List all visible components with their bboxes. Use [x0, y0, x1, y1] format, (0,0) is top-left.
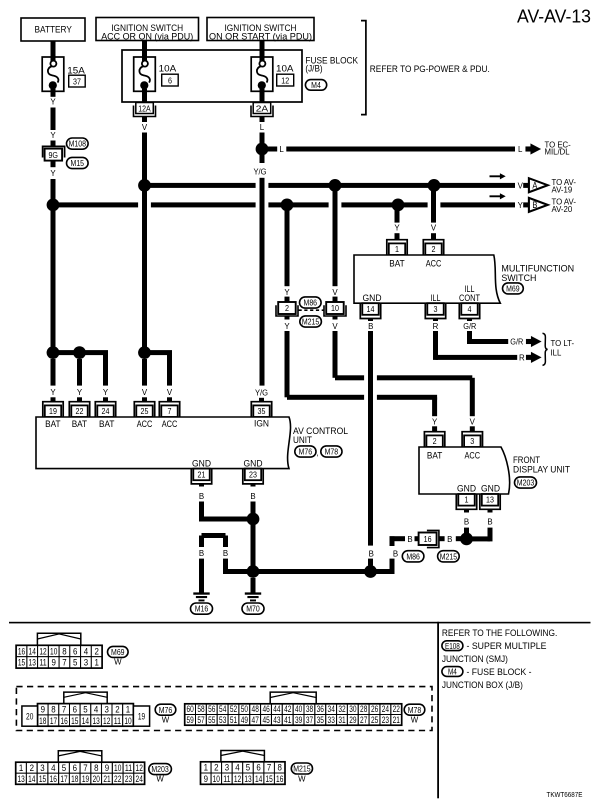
svg-text:49: 49 — [241, 715, 248, 725]
svg-text:R: R — [519, 353, 525, 362]
battery box — [21, 18, 85, 41]
svg-text:22: 22 — [114, 774, 121, 784]
ground bus wire — [253, 569, 395, 574]
svg-text:2: 2 — [285, 303, 289, 313]
svg-text:58: 58 — [197, 704, 204, 714]
ignition switch ACC box — [96, 18, 199, 41]
inline connector 10 — [324, 305, 346, 316]
oval M4 note — [442, 667, 463, 677]
stub below connector 10 — [333, 316, 338, 320]
svg-text:50: 50 — [241, 704, 248, 714]
oval M16 — [191, 603, 213, 614]
oval M215 — [300, 316, 322, 327]
svg-text:M4: M4 — [448, 668, 457, 677]
svg-text:CONT: CONT — [459, 292, 480, 303]
svg-text:DISPLAY UNIT: DISPLAY UNIT — [513, 464, 570, 475]
svg-text:16: 16 — [424, 534, 432, 544]
svg-text:2: 2 — [214, 763, 218, 773]
connector 21 — [191, 469, 211, 484]
svg-text:21: 21 — [198, 469, 206, 479]
svg-text:4: 4 — [84, 646, 88, 656]
svg-text:B: B — [199, 549, 204, 558]
connector 23 — [243, 469, 263, 484]
svg-text:48: 48 — [252, 704, 259, 714]
wire V down to splice — [142, 133, 147, 353]
connector face M203 grid — [16, 762, 27, 773]
svg-text:47: 47 — [252, 715, 259, 725]
junction dot Y bus left — [47, 199, 60, 212]
svg-text:15A: 15A — [67, 64, 85, 75]
svg-text:3: 3 — [470, 436, 474, 446]
svg-text:16: 16 — [276, 774, 283, 784]
svg-text:7: 7 — [267, 763, 271, 773]
stub to inline connector 2 — [285, 297, 290, 302]
svg-text:53: 53 — [219, 715, 226, 725]
svg-text:ACC: ACC — [465, 450, 481, 461]
svg-text:M86: M86 — [304, 298, 318, 308]
svg-text:19: 19 — [49, 406, 57, 416]
stub 7 — [167, 397, 172, 402]
svg-text:M86: M86 — [406, 551, 420, 561]
junction dot V bus x335 — [329, 179, 342, 192]
svg-text:33: 33 — [328, 715, 335, 725]
svg-text:16: 16 — [60, 716, 67, 726]
svg-text:BAT: BAT — [389, 257, 405, 268]
wire Y bus segment 1 — [53, 202, 138, 207]
svg-text:BAT: BAT — [427, 450, 443, 461]
svg-text:5: 5 — [73, 658, 77, 668]
junction dot ground bus — [364, 565, 377, 578]
stub to connector 3 front display — [470, 426, 475, 431]
svg-text:32: 32 — [338, 704, 345, 714]
svg-text:REFER TO PG-POWER & PDU.: REFER TO PG-POWER & PDU. — [370, 63, 490, 74]
right leg to ground bus — [223, 536, 228, 548]
wire Y down to BAT splice — [51, 179, 56, 353]
svg-text:M78: M78 — [325, 447, 339, 457]
svg-text:21: 21 — [103, 774, 110, 784]
stub to connector 1 — [395, 233, 400, 240]
svg-text:40: 40 — [295, 704, 302, 714]
svg-text:12: 12 — [136, 763, 143, 773]
svg-text:G/R: G/R — [510, 338, 523, 347]
oval M203 grid label — [149, 764, 172, 775]
oval M4 — [305, 80, 326, 91]
connector 1 BAT multifunction — [387, 240, 407, 255]
svg-text:14: 14 — [29, 646, 36, 656]
svg-text:W: W — [298, 775, 306, 784]
svg-text:2: 2 — [433, 436, 437, 446]
front display unit box — [419, 447, 510, 494]
svg-text:52: 52 — [230, 704, 237, 714]
svg-text:E108: E108 — [445, 642, 460, 651]
svg-text:B: B — [447, 535, 452, 544]
stub 24 — [103, 397, 108, 402]
svg-text:17: 17 — [50, 716, 57, 726]
svg-text:2A: 2A — [256, 104, 269, 113]
multifunction switch box — [354, 255, 500, 303]
svg-text:GND: GND — [481, 483, 500, 494]
svg-text:10A: 10A — [159, 63, 177, 74]
svg-text:G/R: G/R — [463, 322, 476, 331]
wire fuse12 down — [260, 91, 265, 103]
splice dot 2 — [73, 346, 86, 359]
svg-text:JUNCTION BOX (J/B): JUNCTION BOX (J/B) — [442, 680, 523, 690]
svg-text:UNIT: UNIT — [293, 434, 312, 445]
svg-text:3: 3 — [84, 658, 88, 668]
svg-text:24: 24 — [136, 774, 143, 784]
svg-text:W: W — [411, 716, 419, 725]
svg-text:9: 9 — [52, 658, 56, 668]
brace TO LT-ILL — [543, 333, 548, 365]
svg-text:22: 22 — [76, 406, 84, 416]
svg-text:55: 55 — [208, 715, 215, 725]
stub right of 16 — [439, 536, 445, 541]
svg-text:V: V — [470, 417, 476, 426]
stub 25 — [142, 397, 147, 402]
stub to connector 2 front display — [432, 426, 437, 431]
svg-text:18: 18 — [71, 774, 78, 784]
svg-text:4: 4 — [51, 763, 55, 773]
svg-text:SWITCH: SWITCH — [501, 272, 536, 283]
svg-text:23: 23 — [249, 469, 257, 479]
svg-text:,: , — [316, 449, 318, 458]
dashed group box — [16, 687, 432, 731]
wire V right segment 2 — [377, 375, 472, 380]
wire V bus down to ACC 2 — [431, 188, 436, 223]
wire into 9G — [51, 141, 56, 148]
svg-text:B: B — [393, 549, 398, 558]
svg-text:AV-19: AV-19 — [552, 185, 573, 194]
svg-text:15: 15 — [39, 774, 46, 784]
wire B from 21 down-right — [199, 502, 204, 522]
svg-text:MIL/DL: MIL/DL — [545, 148, 571, 157]
svg-text:3: 3 — [105, 705, 109, 715]
wire right leg down — [223, 559, 228, 574]
oval M78 — [321, 446, 342, 457]
svg-text:Y: Y — [432, 417, 438, 426]
fuse block box — [122, 50, 302, 102]
bracket for fuse block note — [361, 21, 366, 115]
connector 4 ILL CONT multifunction — [459, 303, 479, 318]
svg-text:12: 12 — [234, 774, 241, 784]
svg-text:29: 29 — [349, 715, 356, 725]
svg-text:- SUPER MULTIPLE: - SUPER MULTIPLE — [467, 641, 547, 651]
svg-text:39: 39 — [295, 715, 302, 725]
connector face M78 hood — [270, 692, 316, 704]
oval E108 — [442, 641, 463, 651]
svg-text:ILL: ILL — [551, 349, 563, 358]
svg-text:20: 20 — [26, 712, 33, 722]
svg-text:M69: M69 — [111, 647, 125, 657]
stub below 23 — [251, 484, 256, 487]
svg-text:6: 6 — [168, 76, 172, 86]
svg-text:ACC: ACC — [426, 257, 442, 268]
svg-text:5: 5 — [246, 763, 250, 773]
svg-text:7: 7 — [83, 763, 87, 773]
junction dot V bus x434 — [428, 179, 441, 192]
svg-text:M76: M76 — [159, 705, 173, 715]
svg-text:BAT: BAT — [45, 418, 61, 429]
svg-text:ACC: ACC — [162, 418, 178, 429]
stub B to ground bus — [368, 559, 373, 566]
svg-text:20: 20 — [93, 774, 100, 784]
svg-text:V: V — [142, 123, 148, 132]
connector face M76 grid — [38, 704, 49, 715]
svg-text:B: B — [464, 518, 469, 527]
stub to inline connector 10 — [333, 297, 338, 302]
svg-text:37: 37 — [73, 77, 81, 87]
wire L bus continued — [286, 147, 515, 152]
svg-text:9: 9 — [105, 763, 109, 773]
svg-text:Y: Y — [77, 388, 83, 397]
wire Y bus segment 3 — [268, 202, 328, 207]
oval M69 — [503, 283, 524, 294]
connector 3 ILL multifunction — [425, 303, 445, 318]
svg-text:GND: GND — [457, 483, 476, 494]
svg-text:L: L — [260, 123, 265, 132]
jumper to connector 24 — [80, 350, 109, 355]
wire V down to corner — [333, 331, 338, 378]
svg-text:45: 45 — [262, 715, 269, 725]
svg-text:1: 1 — [126, 705, 130, 715]
svg-text:16: 16 — [18, 646, 25, 656]
svg-text:10: 10 — [50, 646, 57, 656]
svg-text:22: 22 — [393, 704, 400, 714]
svg-text:Y: Y — [394, 224, 400, 233]
svg-text:M203: M203 — [517, 478, 535, 488]
wire to ground M16 — [199, 559, 204, 593]
wire V bus down to connector 10 — [333, 188, 338, 286]
svg-text:AV-20: AV-20 — [552, 205, 573, 214]
wire Y right segment 2 — [377, 395, 437, 400]
svg-text:34: 34 — [328, 704, 335, 714]
svg-text:2: 2 — [432, 244, 436, 254]
svg-text:18: 18 — [39, 716, 46, 726]
svg-text:GND: GND — [244, 457, 263, 468]
svg-text:Y: Y — [103, 388, 109, 397]
wire Y down to BAT 2 — [432, 397, 437, 416]
jumper splice to x79.5 — [53, 350, 80, 355]
oval M69 grid label — [108, 646, 129, 657]
svg-text:12A: 12A — [138, 104, 151, 113]
wire V down to ACC 3 — [470, 378, 475, 416]
ground jumper bar — [202, 533, 226, 538]
svg-text:38: 38 — [306, 704, 313, 714]
splice dot battery feed — [47, 346, 60, 359]
oval M215 lower — [438, 551, 460, 562]
stub below connector 2 — [285, 316, 290, 320]
svg-text:4: 4 — [235, 763, 239, 773]
connector face M69 hood — [37, 633, 80, 645]
svg-text:16: 16 — [50, 774, 57, 784]
oval M70 — [242, 603, 264, 614]
svg-text:57: 57 — [197, 715, 204, 725]
svg-text:Y: Y — [50, 131, 56, 140]
svg-text:W: W — [114, 658, 122, 667]
svg-text:7: 7 — [168, 406, 172, 416]
oval M203 — [515, 477, 537, 488]
svg-text:8: 8 — [62, 646, 66, 656]
svg-text:44: 44 — [273, 704, 280, 714]
svg-text:9G: 9G — [48, 150, 58, 160]
svg-text:M4: M4 — [311, 80, 321, 90]
svg-text:2: 2 — [30, 763, 34, 773]
svg-text:GND: GND — [192, 457, 211, 468]
wire L down to Y/G label — [260, 133, 265, 164]
junction dot ground bus M70 — [247, 565, 260, 578]
fuse 15A — [42, 57, 64, 91]
svg-text:Y: Y — [50, 97, 56, 106]
arrow to LT-ILL G/R — [526, 336, 542, 347]
wire Y bus segment 4 — [341, 202, 427, 207]
wire battery to fuse 15A — [51, 41, 56, 58]
inline connector 16 — [427, 530, 439, 547]
wire fuse6 down — [142, 91, 147, 103]
wire fuse to Y label — [51, 91, 56, 97]
stub below 13 — [488, 509, 493, 512]
svg-text:10: 10 — [124, 716, 131, 726]
stub 19 — [51, 397, 56, 402]
connector 3 ACC front display — [462, 432, 482, 447]
svg-text:11: 11 — [39, 658, 46, 668]
wire V bus segment 1 — [145, 183, 256, 188]
svg-text:5: 5 — [83, 705, 87, 715]
svg-text:V: V — [142, 388, 148, 397]
connector 2 ACC multifunction — [423, 240, 443, 255]
svg-text:M215: M215 — [302, 317, 320, 327]
connector face M76 hood — [64, 692, 107, 704]
svg-text:ACC: ACC — [137, 418, 153, 429]
wire Y to Y — [51, 108, 56, 131]
svg-text:V: V — [518, 181, 524, 190]
stub below 14 — [368, 319, 373, 322]
svg-text:35: 35 — [258, 406, 266, 416]
oval M86 — [300, 297, 322, 308]
wire Y bus down to connector 2 — [285, 207, 290, 286]
wire B from GND14 down — [368, 331, 373, 546]
connector face M215 grid — [201, 762, 212, 773]
stub below 21 — [199, 484, 204, 487]
svg-text:L: L — [518, 145, 523, 154]
svg-text:(J/B): (J/B) — [305, 62, 322, 73]
svg-text:B: B — [250, 492, 255, 501]
svg-text:23: 23 — [382, 715, 389, 725]
svg-text:JUNCTION (SMJ): JUNCTION (SMJ) — [442, 654, 508, 664]
svg-text:23: 23 — [125, 774, 132, 784]
svg-text:17: 17 — [60, 774, 67, 784]
svg-text:10: 10 — [114, 763, 121, 773]
arrow to EC — [526, 144, 542, 155]
svg-text:59: 59 — [186, 715, 193, 725]
stub before triangle B — [523, 202, 529, 207]
svg-text:Y: Y — [50, 388, 56, 397]
svg-text:Y: Y — [518, 201, 524, 210]
junction dot L line — [256, 143, 269, 156]
svg-text:BATTERY: BATTERY — [35, 24, 73, 35]
svg-text:6: 6 — [256, 763, 260, 773]
svg-text:A: A — [532, 180, 537, 190]
svg-text:B: B — [199, 492, 204, 501]
svg-text:11: 11 — [223, 774, 230, 784]
ground symbol M70 — [245, 592, 261, 594]
svg-text:10: 10 — [213, 774, 220, 784]
svg-text:V: V — [332, 288, 338, 297]
svg-text:1: 1 — [19, 763, 23, 773]
svg-text:Y: Y — [284, 288, 290, 297]
svg-text:ACC OR ON (via PDU): ACC OR ON (via PDU) — [101, 31, 193, 42]
connector 9G (SMJ) — [43, 146, 65, 157]
wire Y down to corner — [285, 331, 290, 397]
svg-text:M76: M76 — [299, 447, 313, 457]
svg-text:4: 4 — [94, 705, 98, 715]
svg-text:GND: GND — [363, 292, 382, 303]
oval M15 — [67, 157, 89, 168]
svg-text:AV-AV-13: AV-AV-13 — [517, 7, 591, 27]
connector 2 BAT front display — [424, 432, 444, 447]
svg-text:M108: M108 — [69, 139, 87, 149]
svg-text:13: 13 — [92, 716, 99, 726]
svg-text:V: V — [167, 388, 173, 397]
inline connector 2 — [276, 305, 298, 316]
wire B from 23 down — [251, 502, 256, 572]
svg-text:60: 60 — [186, 704, 193, 714]
svg-text:8: 8 — [278, 763, 282, 773]
left leg to M16 — [199, 536, 204, 548]
svg-text:37: 37 — [306, 715, 313, 725]
svg-text:6: 6 — [73, 646, 77, 656]
oval M76 grid label — [155, 704, 176, 715]
svg-text:14: 14 — [367, 304, 375, 314]
wire stub below 2A — [260, 117, 265, 123]
svg-text:41: 41 — [284, 715, 291, 725]
stub below 1 — [464, 509, 469, 512]
svg-text:IGN: IGN — [254, 417, 269, 428]
svg-text:3: 3 — [434, 304, 438, 314]
svg-text:5: 5 — [62, 763, 66, 773]
svg-text:M16: M16 — [195, 604, 209, 614]
junction dot Y bus x398 — [392, 199, 405, 212]
svg-text:14: 14 — [255, 774, 262, 784]
connector face M203 hood — [58, 751, 102, 762]
svg-text:1: 1 — [465, 495, 469, 505]
wire Y bus segment 5 — [440, 202, 515, 207]
svg-text:8: 8 — [94, 763, 98, 773]
svg-text:13: 13 — [244, 774, 251, 784]
junction dot Y bus x287 — [281, 199, 294, 212]
svg-text:51: 51 — [230, 715, 237, 725]
J/B connector 2A — [253, 103, 271, 114]
svg-text:24: 24 — [102, 406, 110, 416]
connector face M69 grid — [16, 645, 27, 656]
junction dot B — [247, 513, 260, 526]
svg-text:54: 54 — [219, 704, 226, 714]
svg-text:13: 13 — [486, 495, 494, 505]
connector 19 — [43, 402, 63, 417]
svg-text:21: 21 — [393, 715, 400, 725]
svg-text:V: V — [431, 224, 437, 233]
stub 35 — [259, 398, 264, 402]
svg-text:1: 1 — [395, 244, 399, 254]
svg-text:R: R — [433, 322, 439, 331]
svg-text:B: B — [223, 549, 228, 558]
svg-text:B: B — [407, 535, 412, 544]
svg-text:B: B — [532, 200, 537, 210]
wire down to connector 25 — [142, 359, 147, 386]
oval M76 — [295, 446, 316, 457]
svg-text:9: 9 — [41, 705, 45, 715]
wire to ground M70 — [251, 578, 256, 593]
fuse number box 37 — [69, 75, 86, 87]
